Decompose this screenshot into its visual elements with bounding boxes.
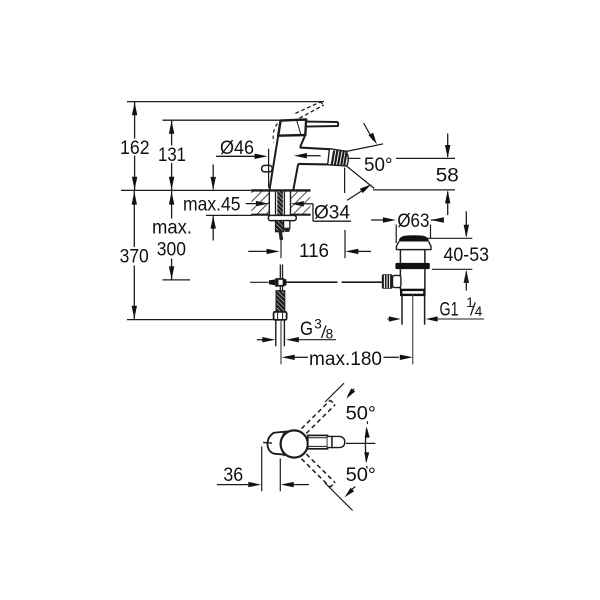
label G3/8 (supply thread) [257, 316, 336, 342]
svg-text:300: 300 [157, 239, 186, 260]
lower 50° extension line [325, 483, 353, 511]
svg-text:36: 36 [223, 465, 243, 486]
svg-text:116: 116 [299, 241, 329, 262]
plan spout cap [268, 431, 293, 456]
dimension Ø63 (plug diameter) [371, 211, 444, 243]
threaded shank [276, 191, 285, 216]
flexible hose (upper section) [275, 221, 283, 241]
pop-up rod (vertical) [280, 265, 282, 280]
aerator (ribbed mousseur) [328, 149, 349, 166]
deck underside line [206, 214, 311, 217]
faucet head (cartridge housing) [278, 120, 306, 136]
plan lever (horizontal position) [308, 435, 345, 448]
waste plug cap [396, 235, 431, 249]
side port knurled knob [382, 274, 393, 288]
aerator axis line [346, 144, 383, 152]
svg-text:Ø34: Ø34 [314, 203, 350, 224]
horizontal linkage rod [286, 281, 382, 283]
plan lever +50° position (dashed) [302, 400, 336, 433]
dimension max.180 (faucet to waste distance) [282, 349, 413, 370]
dimension 58 (outlet height) [436, 134, 459, 216]
label 50° (side view) [364, 155, 393, 176]
svg-text:4: 4 [475, 304, 483, 319]
svg-text:max.: max. [152, 218, 192, 239]
svg-text:162: 162 [120, 138, 150, 159]
outlet level line [348, 157, 456, 159]
upper 50° arc arrow [346, 388, 355, 398]
dimension 36 (plan offset) [217, 447, 309, 492]
reference line: lever tip level (top) [127, 101, 324, 103]
svg-text:Ø63: Ø63 [397, 211, 429, 232]
supply tube G3/8 [276, 320, 285, 364]
svg-text:G1: G1 [440, 299, 459, 320]
Ø46 extension line [268, 149, 270, 188]
plan body circle [281, 430, 308, 457]
plan centerline [346, 442, 375, 444]
svg-text:3: 3 [314, 316, 322, 331]
waste body lower [400, 269, 425, 290]
hose nut [274, 312, 287, 320]
waste flange (seal ring) [395, 263, 429, 269]
deck hatching left block [251, 190, 269, 215]
svg-text:131: 131 [158, 145, 186, 166]
svg-text:G: G [300, 319, 313, 340]
svg-text:max.45: max.45 [183, 194, 241, 215]
50° arc arrow upper [364, 123, 377, 144]
dimension 40-53 (waste deck range) [427, 211, 490, 290]
svg-text:max.180: max.180 [309, 349, 382, 370]
pull rod segment [280, 240, 282, 258]
spout [298, 148, 329, 165]
faucet body (tapered column) [269, 135, 305, 190]
plan aerator tick [263, 442, 272, 445]
waste nut band [401, 290, 424, 295]
flexible hose (lower braided section) [276, 291, 285, 312]
lower 50° arc arrow [345, 487, 356, 498]
upper 50° extension line [325, 383, 344, 402]
reference line: body top level [163, 119, 281, 121]
pull-rod knob (left of body) [262, 165, 273, 172]
rod below clamp [280, 286, 282, 291]
dimension 131 (body height) [158, 120, 186, 190]
dashed head outline (tilted position) [273, 124, 277, 143]
waste body upper [400, 250, 425, 263]
rod guide tube [284, 221, 290, 232]
dimension 162 (overall height above deck) [120, 102, 150, 191]
50° arc arrow lower [347, 184, 371, 200]
angle arc at lever axis [364, 421, 369, 468]
svg-text:50°: 50° [346, 404, 376, 425]
svg-text:40-53: 40-53 [444, 245, 490, 266]
tailpipe [402, 295, 425, 325]
plan lever -50° position (dashed) [302, 454, 336, 487]
dimension 116 (spout projection) [248, 230, 371, 262]
svg-text:370: 370 [120, 247, 149, 268]
side port collar [393, 275, 401, 287]
svg-text:58: 58 [436, 165, 459, 186]
lever handle raised position (dashed) [295, 102, 323, 118]
label G1 1/4 (waste thread) [387, 295, 484, 322]
dimension max.300 (rod length) [152, 191, 192, 280]
vertical extension at aerator tip [344, 168, 346, 194]
dimension 370 (depth below deck) [120, 191, 149, 319]
50° angle line lower [346, 166, 374, 189]
supply connection reference line [127, 319, 274, 321]
svg-text:50°: 50° [346, 465, 376, 486]
label 50° plan upper [346, 404, 376, 425]
deck surface line [121, 189, 455, 192]
label Ø46 (body diameter) [216, 138, 321, 159]
lever handle (horizontal position) [306, 122, 338, 127]
label Ø34 (deck hole diameter) [291, 201, 351, 224]
svg-text:50°: 50° [364, 155, 393, 176]
mounting washer [268, 215, 296, 220]
tailpipe centerline [412, 295, 414, 364]
label 50° plan lower [346, 465, 376, 486]
linkage clamp block [250, 278, 286, 287]
dimension max.45 (deck thickness) [183, 165, 269, 241]
deck hatching right block [291, 190, 311, 215]
